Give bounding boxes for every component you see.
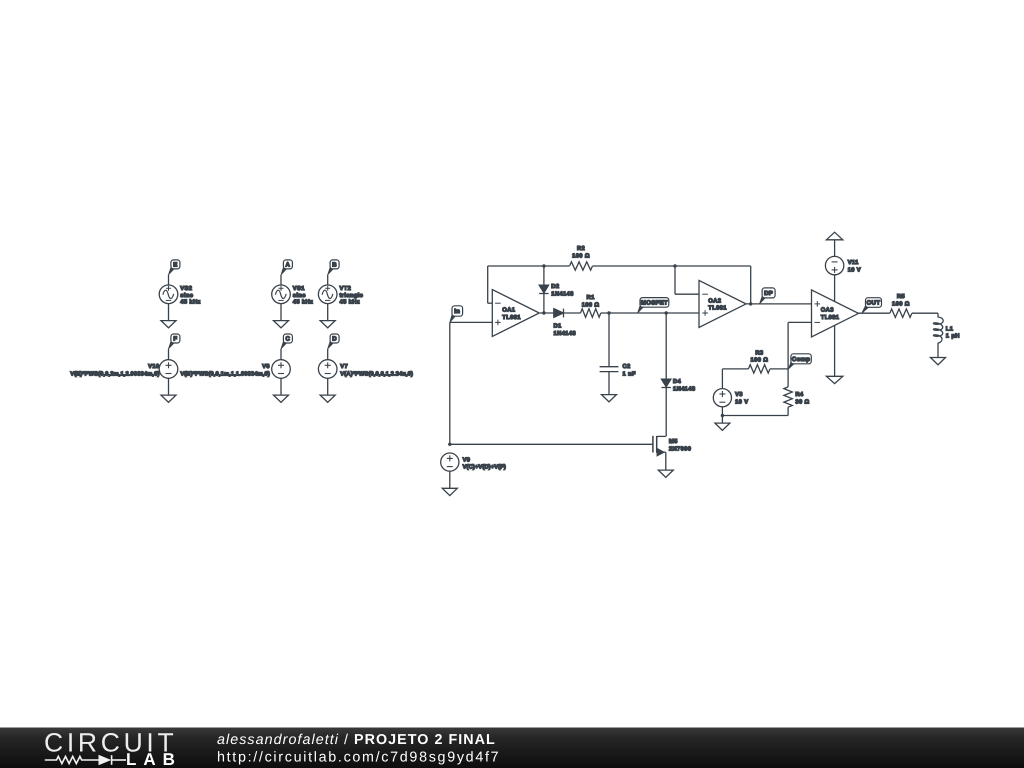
svg-text:http://circuitlab.com/c7d98sg9: http://circuitlab.com/c7d98sg9yd4f7 (217, 749, 500, 765)
svg-text:2N7000: 2N7000 (669, 446, 691, 453)
svg-text:VT2: VT2 (340, 285, 352, 292)
svg-text:R4: R4 (795, 392, 804, 398)
svg-text:C: C (286, 336, 291, 343)
svg-text:sine: sine (180, 292, 193, 299)
svg-text:R3: R3 (755, 349, 764, 356)
svg-text:R1: R1 (587, 295, 596, 301)
svg-text:A: A (286, 262, 291, 269)
svg-text:E: E (173, 262, 177, 269)
svg-text:D: D (332, 336, 337, 343)
svg-text:triangle: triangle (340, 292, 364, 299)
svg-text:V9: V9 (463, 456, 471, 463)
svg-text:V(E)*PWS(0,0,2m,1,2.00334m,0): V(E)*PWS(0,0,2m,1,2.00334m,0) (70, 370, 159, 377)
svg-text:L1: L1 (946, 327, 954, 333)
svg-text:V(C)+V(D)+V(F): V(C)+V(D)+V(F) (463, 464, 506, 471)
svg-text:TL081: TL081 (821, 314, 840, 321)
svg-text:sine: sine (293, 292, 306, 299)
svg-text:R5: R5 (897, 294, 906, 300)
svg-text:VS2: VS2 (180, 285, 192, 292)
svg-text:100 Ω: 100 Ω (751, 357, 769, 364)
svg-text:1N4148: 1N4148 (554, 330, 577, 337)
svg-text:OUT: OUT (867, 300, 881, 307)
svg-text:OA1: OA1 (502, 307, 515, 314)
svg-text:10 V: 10 V (848, 267, 861, 274)
svg-text:VS1: VS1 (293, 285, 305, 292)
svg-text:100 Ω: 100 Ω (582, 302, 600, 309)
svg-text:DP: DP (764, 290, 773, 297)
svg-text:In: In (454, 308, 460, 315)
svg-text:OA2: OA2 (708, 297, 721, 304)
svg-text:10 V: 10 V (735, 399, 748, 406)
svg-text:V3: V3 (735, 391, 743, 398)
svg-text:Comp: Comp (792, 356, 810, 363)
svg-text:30 Ω: 30 Ω (795, 399, 809, 406)
svg-text:B: B (332, 262, 337, 269)
svg-text:V7: V7 (340, 364, 348, 370)
svg-text:100 Ω: 100 Ω (572, 253, 590, 260)
svg-text:V(B)*PWS(0,0,1m,1,1.00334m,0): V(B)*PWS(0,0,1m,1,1.00334m,0) (180, 370, 270, 377)
svg-text:100 Ω: 100 Ω (892, 300, 910, 307)
svg-text:LAB: LAB (126, 750, 182, 768)
svg-text:TL081: TL081 (502, 314, 521, 321)
svg-text:MOSFET: MOSFET (641, 300, 668, 307)
svg-text:C2: C2 (623, 363, 631, 370)
svg-text:45 kHz: 45 kHz (180, 299, 200, 306)
svg-text:D4: D4 (673, 379, 682, 385)
svg-text:V11: V11 (848, 260, 859, 266)
svg-text:M5: M5 (669, 439, 678, 445)
svg-text:R2: R2 (577, 245, 585, 252)
svg-text:45 kHz: 45 kHz (340, 299, 360, 306)
svg-text:1 nF: 1 nF (623, 372, 636, 378)
svg-text:V(A)*PWS(0,0,0,1,3.34u,0): V(A)*PWS(0,0,0,1,3.34u,0) (340, 370, 413, 377)
svg-text:45 kHz: 45 kHz (293, 299, 313, 306)
svg-text:1 μH: 1 μH (946, 334, 960, 340)
svg-text:1N4148: 1N4148 (551, 291, 574, 298)
svg-text:OA3: OA3 (821, 307, 834, 314)
svg-text:D2: D2 (551, 283, 559, 290)
svg-text:D1: D1 (554, 324, 563, 330)
svg-text:alessandrofaletti / PROJETO 2: alessandrofaletti / PROJETO 2 FINAL (217, 732, 496, 748)
svg-text:TL081: TL081 (708, 305, 727, 312)
svg-text:V10: V10 (148, 363, 159, 370)
svg-text:1N4148: 1N4148 (673, 386, 696, 393)
svg-text:F: F (173, 336, 177, 343)
svg-text:V6: V6 (262, 363, 270, 370)
